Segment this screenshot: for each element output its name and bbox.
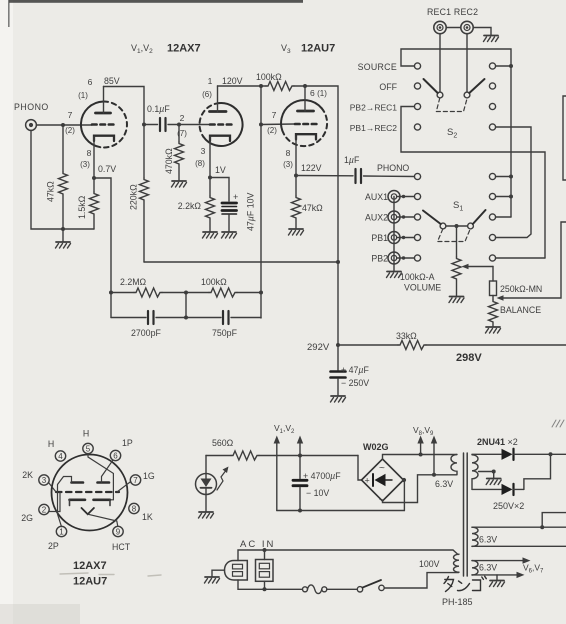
V2 plate [210,110,227,113]
wire bridge AC bottom [383,475,457,503]
label Tango (katakana) [444,576,486,591]
svg-text:2.2kΩ: 2.2kΩ [178,201,202,211]
socket internal grid to pin7 [117,482,131,493]
S2 left contact PB2-REC1 [414,103,420,109]
V2 cathode [210,136,230,141]
S2 left contact SOURCE [414,63,420,69]
svg-text:298V: 298V [456,352,482,364]
node V3 cathode junction [294,174,298,178]
node NFB middle top [184,291,188,295]
ground balance [486,327,501,333]
wire DC- bottom rail [277,510,405,512]
socket internal left cathode [70,498,86,501]
balance wiper arrow from right channel [501,222,566,298]
svg-text:1K: 1K [142,512,153,522]
AC outlet box [256,560,274,582]
wire source right contact tap [496,65,512,67]
S1 left contact AUX2 [414,214,420,220]
jack AUX1 [388,191,400,203]
wire S1 common to volume [456,226,458,257]
AC plug symbol [225,561,248,581]
capacitor 47uF 250V B+ filter [337,345,339,370]
svg-text:1: 1 [59,528,64,537]
node source bus dot [509,64,513,68]
wire right channel heater tap [542,513,566,528]
T1 heater winding 6.3V (left top) [451,455,457,475]
wire REC1 to S2 pole [439,34,441,92]
wire caps middle [156,317,221,319]
svg-text:+ 47µF: + 47µF [341,365,369,375]
svg-text:AC IN: AC IN [240,539,275,550]
ground B+ filter [331,396,346,402]
jack AUX2 [388,211,400,223]
svg-text:~: ~ [379,495,385,506]
svg-text:2700pF: 2700pF [131,328,161,338]
socket pin 6 [110,450,120,460]
wire AC top rail [238,550,458,561]
node V1 plate node [142,123,146,127]
ground heater V6V7 [496,575,498,581]
capacitor 0.1uF coupling [144,124,158,126]
svg-text:250V×2: 250V×2 [493,501,524,511]
wire AUX1 jack to contact [397,196,415,198]
svg-text:8: 8 [87,148,92,158]
S1 right contact AUX2 [489,214,495,220]
node S1 common [455,224,459,228]
svg-text:85V: 85V [104,76,120,86]
node V1 cathode junction [92,176,96,180]
S2 right contact SOURCE [489,63,495,69]
wire phono jack to V1 grid [37,124,93,126]
svg-text:6.3V: 6.3V [479,535,497,545]
socket internal pin5 lead [88,454,113,500]
svg-text:250kΩ-MN: 250kΩ-MN [500,284,542,294]
svg-text:+: + [233,192,238,202]
tube V1 (12AX7 half) envelope [81,102,104,148]
svg-text:470kΩ: 470kΩ [164,148,174,174]
wire phono jack shield down and across [31,131,94,230]
node V3 plate / B+ top junction [303,84,307,88]
node NFB left junction [109,291,113,295]
svg-text:100V: 100V [419,559,440,569]
V1 grid dashes [92,123,114,126]
phono input jack J1 [26,120,37,131]
switch S1 pole A [440,223,446,229]
svg-text:− 250V: − 250V [341,378,369,388]
socket internal grid dashes [56,491,119,493]
node V3 grid junction [259,123,263,127]
socket pin 1 [56,526,66,536]
node B+ feed junction [336,260,340,264]
svg-text:− 10V: − 10V [306,488,329,498]
V3 grid dashes [295,123,317,126]
socket internal right cathode [94,498,111,501]
wire PB2 jack to contact [397,257,415,259]
capacitor 2700pF [111,317,146,319]
switch S2 pole B [464,92,470,98]
socket pin 7 [130,475,140,485]
svg-text:3: 3 [201,146,206,156]
svg-text:(7): (7) [177,129,187,138]
S1 left contact PB2 [414,255,420,261]
pencil marks bottom left [60,573,161,576]
svg-text:220kΩ: 220kΩ [129,184,139,210]
S2 right contact OFF [489,83,495,89]
capacitor 47uF 10V cathode bypass [210,178,229,202]
pilot lamp PL [196,474,217,495]
svg-text:PB1: PB1 [371,233,388,243]
svg-text:(1): (1) [78,91,88,100]
wire bridge AC top [383,455,457,460]
svg-text:VOLUME: VOLUME [404,283,441,293]
capacitor 1uF output coupling [296,175,353,177]
ground 47uF [222,232,237,238]
V1 cathode [94,136,114,141]
node NFB middle bottom [184,316,188,320]
svg-text:2G: 2G [21,513,33,523]
resistor 1.5k V1 cathode [93,178,95,192]
capacitor 750pF [222,311,224,324]
svg-text:8: 8 [286,148,291,158]
switch S2 gang link (dashed) [436,98,467,112]
wire V3 grid [261,123,294,126]
ground jack bus [387,272,402,278]
heater arrow V1V2 minus [276,441,278,511]
svg-text:292V: 292V [307,342,330,353]
svg-text:3: 3 [42,476,47,485]
svg-text:47µF 10V: 47µF 10V [246,193,256,231]
wire bridge minus to rail [403,480,405,511]
switch S1 gang link (dashed) [438,229,471,242]
S2 left contact PB1-REC2 [414,124,420,130]
svg-text:(3): (3) [283,160,293,169]
S1 left contact AUX1 [414,193,420,199]
wire source bus left elbow [401,49,511,217]
svg-text:100kΩ: 100kΩ [256,72,282,82]
svg-text:OFF: OFF [379,82,397,92]
heater arrow V8V9 b [433,441,435,475]
jack PB1 [388,232,400,244]
resistor 100k NFB [186,292,209,294]
ground 2.2k [203,232,218,238]
ground 47k V3 [289,229,304,235]
wire V2 plate up to 100k node [218,85,262,87]
fuse F1 [303,587,308,592]
node V2 plate node [259,84,263,88]
node bottom junction [61,227,65,231]
svg-text:1P: 1P [122,438,133,448]
svg-text:PHONO: PHONO [14,102,49,112]
resistor 220k V1 plate load [143,125,145,179]
svg-text:47kΩ: 47kΩ [46,181,56,202]
svg-text:7: 7 [133,476,138,485]
socket internal cathode vee to pin9 [82,508,94,514]
resistor 33k B+ dropper [398,341,426,350]
wire S1 right bus rows 1-3 [496,176,512,178]
jack PB2 [388,252,400,264]
wire REC jack shields [447,27,461,29]
scan border artifact left [8,0,10,27]
resistor 2.2M NFB [111,292,134,294]
resistor 47k input load [62,125,64,172]
svg-text:100kΩ: 100kΩ [201,277,227,287]
ground input stage [62,229,64,242]
node NFB right junction [259,291,263,295]
wire REC2 to S2 pole [466,34,468,92]
wire jack shield bus [393,197,395,272]
svg-text:2P: 2P [48,541,59,551]
wire NFB middle vertical [185,293,187,318]
svg-text:+: + [365,476,370,486]
ground AC plug [212,570,225,577]
wire AC bottom rail [238,580,302,589]
HV center tap to chassis [479,472,494,479]
svg-text:2: 2 [42,506,47,515]
wire S2 row4 right to S1 PB1 contact [496,127,532,238]
wire NFB left vertical [110,293,112,318]
svg-text:6.3V: 6.3V [479,563,497,573]
svg-text:SOURCE: SOURCE [358,62,397,72]
wire right channel stub upper [563,96,566,180]
socket pin 5 [83,443,93,453]
jack REC2 [461,21,473,33]
resistor 47k V3 cathode [295,176,297,197]
svg-text:PHONO: PHONO [377,163,409,173]
wire PB1 jack to contact [397,237,415,239]
svg-text:1: 1 [208,76,213,86]
svg-text:9: 9 [116,528,121,537]
socket pin 2 [39,504,49,514]
potentiometer balance lower half [492,296,494,301]
svg-text:2: 2 [180,113,185,123]
node bridge minus [402,478,406,482]
T1 6.3V winding (right bottom) [472,561,478,575]
wire fuse to switch [327,588,357,590]
svg-text:PB2→REC1: PB2→REC1 [350,103,398,113]
switch S1 arm A [423,211,441,225]
wire HV output to edge [551,453,566,455]
wire B+ top to riser [305,86,338,345]
svg-text:4: 4 [58,452,63,461]
socket internal pin3 lead [49,483,57,493]
svg-text:12AX7: 12AX7 [73,560,107,572]
svg-text:12AU7: 12AU7 [73,576,107,588]
socket internal left plate [72,481,84,484]
svg-text:BALANCE: BALANCE [500,305,541,315]
switch S2 arm A [424,79,438,93]
svg-text:REC1 REC2: REC1 REC2 [427,7,478,17]
socket pin 4 [55,451,65,461]
capacitor 4700uF 10V [299,456,301,479]
diode 2NU41 lower [472,488,501,490]
S2 right contact PB1-REC2 [489,124,495,130]
wire DC+ down to bridge [358,456,362,481]
svg-text:120V: 120V [222,76,243,86]
V1 plate [96,112,111,115]
wire DC+ rail [259,455,358,457]
switch S2 pole A [437,92,443,98]
V3 cathode [296,134,316,139]
S1 right contact PB2 [489,255,495,261]
wire NFB from V1 cathode [94,178,111,293]
svg-text:12AX7: 12AX7 [167,43,201,55]
socket internal grid hook to pin2 [50,492,61,512]
resistor 470k V2 grid leak [178,125,180,143]
svg-text:0.7V: 0.7V [98,164,116,174]
S1 left contact PB1 [414,234,420,240]
wire V2 plate node down to V3 grid [260,86,262,125]
wire V1 plate to coupling cap [104,87,145,125]
node phono/47k junction [61,123,65,127]
svg-text:1G: 1G [143,471,155,481]
S1 right contact AUX1 [489,193,495,199]
svg-text:5: 5 [86,445,91,454]
svg-text:PH-185: PH-185 [442,597,473,607]
S2 left contact OFF [414,83,420,89]
svg-text:6: 6 [88,77,93,87]
bottom-left corner shading [0,604,80,624]
svg-text:6: 6 [113,452,118,461]
socket pin 9 [113,526,123,536]
svg-text:H: H [48,439,54,449]
bridge diode symbol [375,474,386,486]
switch S1 pole B [468,223,474,229]
potentiometer 250k-MN balance upper (box) [490,281,497,296]
socket pin 3 [39,475,49,485]
node HV output junction [549,452,553,456]
svg-text:2NU41 ×2: 2NU41 ×2 [477,437,518,447]
wire cap to V2 grid [179,124,210,126]
jack REC1 [434,21,446,33]
svg-text:47kΩ: 47kΩ [302,203,323,213]
svg-text:H: H [83,429,89,439]
svg-text:33kΩ: 33kΩ [396,331,417,341]
T1 HV winding (right top) [472,455,478,490]
svg-text:(6): (6) [202,90,212,99]
diode 2NU41 upper [472,453,501,455]
socket envelope circle [52,455,128,531]
wire AUX2 jack to contact [397,216,415,218]
svg-text:~: ~ [379,463,385,474]
svg-text:HCT: HCT [112,542,131,552]
chassis hatch top right of PSU [552,420,564,427]
svg-text:(2): (2) [267,126,277,135]
S2 right contact PB2-REC1 [489,103,495,109]
V3 plate [298,110,314,113]
svg-text:7: 7 [272,110,277,120]
svg-text:PB1→REC2: PB1→REC2 [350,123,398,133]
lamp light arrow [217,469,227,490]
wire 220k bottom to B+ riser [144,261,338,263]
resistor 100k V2 plate load [261,85,266,87]
socket pin 8 [129,503,139,513]
ground REC jacks [484,36,499,42]
wire V2 plate node down to NFB [260,125,262,319]
svg-text:0.1µF: 0.1µF [147,104,170,114]
B+ rail 292V [336,343,340,347]
ground pilot lamp [199,512,214,518]
tube V3 (12AU7 half) envelope [281,100,322,134]
scan border artifact top [9,0,303,3]
T1 100V primary winding [454,554,459,572]
S1 right contact PHONO [489,173,495,179]
svg-text:AUX2: AUX2 [365,213,388,223]
svg-text:PB2: PB2 [371,254,388,264]
wire S1 poles common [446,225,468,227]
wire S1 PB2 right to bus [496,257,546,259]
svg-text:7: 7 [68,110,73,120]
tube V2 (12AX7 half) envelope [200,103,220,137]
svg-text:1.5kΩ: 1.5kΩ [77,195,87,219]
svg-text:AUX1: AUX1 [365,192,388,202]
svg-text:12AU7: 12AU7 [301,43,335,55]
svg-text:750pF: 750pF [212,328,238,338]
switch S1 arm B [473,210,486,224]
svg-text:+ 4700µF: + 4700µF [303,471,341,481]
wire switch to primary [384,573,458,588]
socket internal right plate [98,481,110,484]
svg-text:(2): (2) [65,126,75,135]
svg-text:6.3V: 6.3V [435,479,453,489]
svg-text:100kΩ-A: 100kΩ-A [400,272,435,282]
svg-text:1µF: 1µF [344,155,360,165]
power switch SW [357,587,362,592]
V2 grid dashes [210,123,232,126]
switch S2 arm B [469,79,484,93]
svg-text:(8): (8) [195,159,205,168]
svg-text:1V: 1V [215,165,226,175]
svg-text:W02G: W02G [363,442,389,452]
T1 6.3V winding (right middle) [472,527,478,546]
ground 470k [172,181,187,187]
node cap tap [298,454,302,458]
wire volume wiper to balance [492,267,494,282]
heater arrow V1V2 plus [299,441,301,456]
svg-text:6 (1): 6 (1) [310,88,327,98]
svg-text:(3): (3) [80,160,90,169]
svg-text:2K: 2K [22,470,33,480]
node 470k/V2 grid junction [177,123,181,127]
svg-text:122V: 122V [301,163,322,173]
ground volume [449,297,464,303]
resistor 2.2k V2 cathode [208,176,212,180]
svg-text:560Ω: 560Ω [212,438,234,448]
potentiometer 100k-A volume [452,257,461,281]
S1 right contact PB1 [489,234,495,240]
svg-text:2.2MΩ: 2.2MΩ [120,277,147,287]
svg-text:8: 8 [132,505,137,514]
wire HV diode join [524,454,551,489]
transformer T1 core [463,453,465,576]
wire S2 row3 to PB2 bus [401,107,545,259]
volume wiper arrow [466,266,493,268]
S1 left contact PHONO [414,173,420,179]
heater arrow V8V9 a [420,441,422,455]
